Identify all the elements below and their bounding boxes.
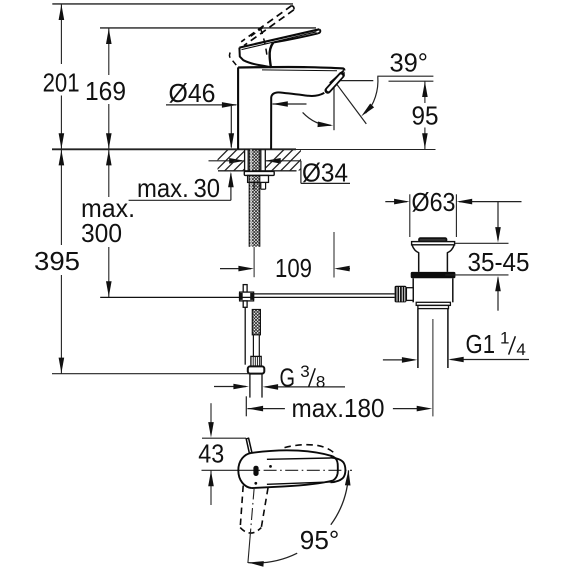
rotated spout centreline [251, 488, 255, 530]
mounting washer under counter [244, 171, 274, 175]
drain rubber washer [411, 272, 456, 278]
drain tailpipe [417, 309, 419, 368]
svg-text:G1: G1 [466, 329, 496, 359]
dimension G3/8 [214, 386, 246, 388]
pop-up rod pin upper [243, 285, 247, 293]
angle arc right with arrow [366, 77, 378, 114]
svg-text:max.180: max.180 [292, 393, 385, 423]
dimension line 201/395 [60, 4, 62, 64]
drain side port [406, 288, 413, 301]
drain flange [412, 242, 455, 245]
svg-text:95°: 95° [300, 525, 340, 555]
dashed spout rotated down right edge [261, 488, 268, 528]
horizontal pop-up rod [254, 293, 395, 295]
top reference line (faucet total height 201) [52, 3, 293, 5]
dimension 109 [220, 268, 251, 270]
braided hose [252, 310, 260, 335]
top view body outline [238, 453, 251, 488]
faucet body left edge [237, 67, 239, 149]
svg-text:39°: 39° [390, 47, 429, 77]
svg-text:max. 30: max. 30 [137, 173, 220, 203]
dashed spout rotated down left edge [240, 486, 243, 528]
drain centreline [432, 319, 434, 416]
handle back and base [239, 48, 271, 68]
dashed spout rotated up [285, 445, 335, 454]
dimension Ø63 [385, 201, 407, 203]
raised handle inner dash [250, 28, 264, 38]
raised handle dashed edge A [241, 6, 292, 42]
extension line faucet centre [253, 247, 255, 277]
drain plug disc [419, 238, 447, 242]
svg-text:Ø46: Ø46 [169, 78, 216, 108]
top view spout inner lines [267, 458, 331, 459]
pop-up rod tail [244, 307, 246, 364]
395 bottom reference line [52, 373, 249, 375]
dimension Ø34 shank [209, 160, 243, 162]
top view centreline [202, 469, 243, 471]
aerator [328, 75, 342, 90]
G3/8 nut [248, 366, 264, 373]
top view spout nose [331, 458, 346, 483]
svg-text:109: 109 [275, 253, 312, 283]
svg-text:8: 8 [316, 373, 325, 392]
svg-text:1: 1 [500, 329, 509, 348]
supply tail tube [249, 374, 251, 398]
raised handle front dashed arc [261, 29, 268, 59]
raised handle dashed edge B [244, 10, 294, 46]
hose tube [252, 335, 254, 357]
svg-text:Ø63: Ø63 [412, 187, 456, 217]
swivel arc 95 deg [331, 470, 349, 524]
knurled nut [395, 286, 407, 303]
leader arrow to counter top [230, 105, 232, 148]
svg-text:43: 43 [198, 439, 224, 469]
drain body [412, 278, 414, 302]
handle tip [318, 29, 321, 33]
cartridge stem top view [253, 466, 258, 476]
pop-up rod pin lower [243, 301, 247, 307]
handle bottom edge [273, 33, 318, 42]
counter top line [52, 148, 296, 150]
svg-text:395: 395 [34, 246, 80, 276]
spout underside [278, 92, 324, 96]
faucet body right edge with fillet [271, 92, 278, 149]
lever pin top view [246, 438, 252, 453]
Ø63 extension lines [409, 194, 411, 237]
95 top reference (outlet height) [389, 80, 434, 82]
raised handle lower lip dashed [229, 53, 236, 66]
reference line for 169 (spout tip height) [100, 27, 316, 29]
spout end face lines [330, 70, 344, 83]
35-45 reference lines [455, 242, 509, 244]
dimension 95 [424, 81, 426, 103]
svg-text:35-45: 35-45 [468, 247, 530, 277]
43 top reference line [202, 437, 246, 439]
svg-text:Ø34: Ø34 [302, 157, 348, 187]
svg-text:95: 95 [412, 100, 439, 130]
dimension line 169/max.300 [108, 28, 110, 75]
counter bottom line [218, 170, 297, 172]
dimension max.180 [245, 396, 247, 416]
svg-text:G: G [280, 362, 296, 392]
svg-text:201: 201 [43, 67, 80, 97]
drain body lower rims [416, 302, 450, 305]
pop-up cross fitting [240, 292, 254, 301]
handle neck front [270, 43, 274, 68]
35-45 arrows [497, 202, 499, 240]
dashed spout rotated down cap [240, 528, 261, 533]
spout inner top line [262, 69, 337, 72]
svg-text:4: 4 [516, 340, 525, 359]
outlet level reference line [334, 80, 373, 82]
angle arc left with arrow [303, 112, 331, 125]
threaded rod [249, 149, 260, 246]
dimension 43 [210, 403, 212, 423]
handle top edge [239, 29, 319, 47]
39 deg flow direction line [334, 81, 366, 124]
drain bell sides [412, 245, 419, 272]
raised handle dashed tip cap [292, 6, 294, 10]
handle top inner line [242, 32, 317, 50]
hose crimp connector [251, 356, 261, 366]
mounting nut steps [248, 175, 269, 182]
dimension G1 1/4 [383, 359, 415, 361]
aerator extension line [333, 81, 335, 130]
spout top edge [238, 67, 344, 70]
detail dots [269, 465, 272, 468]
shank tube walls [244, 149, 246, 171]
max300 bottom reference + rod lower line [100, 296, 394, 298]
svg-text:300: 300 [81, 218, 122, 248]
svg-text:169: 169 [85, 76, 126, 106]
svg-text:3: 3 [300, 362, 309, 381]
